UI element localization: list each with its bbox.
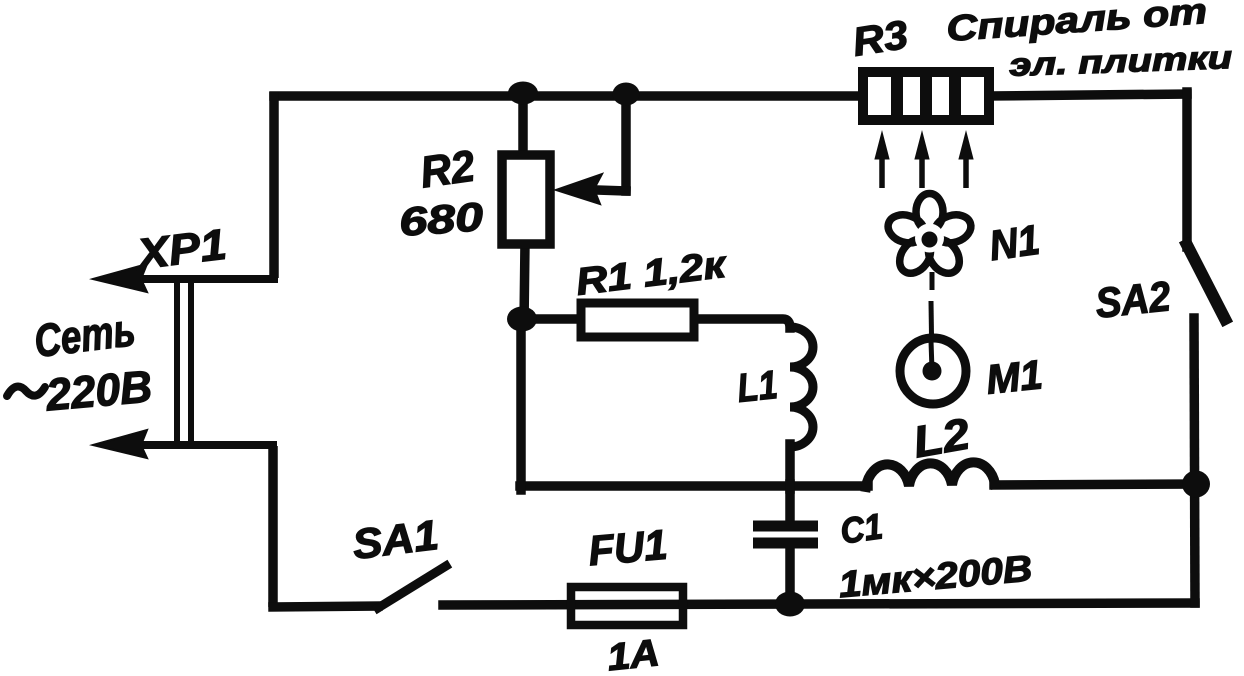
wire from node to R1: [530, 314, 579, 324]
wire L1 bottom to middle rail: [785, 444, 795, 489]
wire middle rail left of L2: [520, 481, 868, 491]
resistor R1 body: [581, 303, 694, 337]
wire vertical from node below R2 down to middle rail: [516, 319, 526, 490]
svg-text:N1: N1: [986, 216, 1042, 270]
wire left vertical upper: [269, 92, 279, 278]
connector XP1 upper pin with arrow: [93, 264, 278, 292]
connector XP1 double bar: [177, 277, 191, 446]
wire SA1 to FU1 to right corner bottom rail: [443, 603, 1195, 605]
wire R2 wiper arm vertical from top node: [621, 97, 631, 191]
label ~ of ~220В: [7, 387, 45, 396]
svg-text:L2: L2: [910, 409, 974, 467]
fuse FU1 body: [571, 587, 683, 625]
wire top rail right segment: [990, 94, 1187, 96]
wire bottom rail to SA1: [273, 606, 378, 607]
wire from top node down to R2: [518, 92, 528, 156]
wire right vertical lower: [1194, 318, 1195, 603]
inductor L2 coil: [866, 462, 995, 487]
svg-text:C1: C1: [838, 505, 885, 551]
fan N1 flower symbol: [884, 194, 974, 280]
capacitor C1 plates: [753, 526, 818, 543]
wire from R2 bottom to node: [524, 243, 525, 323]
heat arrow 2: [915, 132, 929, 188]
resistor R2 body: [502, 155, 550, 244]
wire C1 top lead: [785, 484, 795, 521]
svg-text:R3: R3: [850, 13, 911, 65]
resistor R3 heater body: [863, 70, 989, 122]
junction node below R2: [507, 307, 537, 332]
svg-text:FU1: FU1: [586, 521, 669, 575]
switch SA2 blade: [1187, 245, 1225, 319]
wire C1 bottom lead: [785, 548, 795, 603]
svg-text:680: 680: [398, 195, 485, 245]
svg-text:M1: M1: [984, 351, 1045, 403]
junction node C1 bottom rail: [775, 592, 805, 617]
svg-text:1A: 1A: [605, 632, 661, 676]
motor M1: [900, 338, 966, 404]
resistor R2 wiper arrowhead: [556, 174, 602, 204]
inductor L1 coil: [790, 327, 813, 447]
wire top rail left segment: [274, 91, 862, 101]
wire left vertical lower: [268, 446, 278, 607]
dashed shaft from N1 to M1: [931, 272, 932, 370]
svg-text:R2: R2: [417, 141, 478, 197]
svg-text:220B: 220B: [43, 360, 154, 420]
junction node top-left of R2: [508, 82, 538, 105]
junction node right rail: [1182, 471, 1210, 498]
wire right vertical upper: [1182, 92, 1192, 247]
svg-text:L1: L1: [735, 363, 779, 411]
switch SA1 blade: [378, 566, 446, 608]
junction node top wiper: [613, 83, 640, 106]
wire middle rail right of L2: [994, 484, 1196, 485]
wire from R1 to L1 top corner: [696, 319, 790, 328]
heat arrow 3: [959, 132, 973, 188]
heat arrow 1: [875, 132, 889, 188]
connector XP1 lower pin with arrow: [93, 430, 277, 458]
wire R2 wiper arm horizontal: [598, 190, 626, 191]
svg-text:SA2: SA2: [1093, 272, 1173, 327]
